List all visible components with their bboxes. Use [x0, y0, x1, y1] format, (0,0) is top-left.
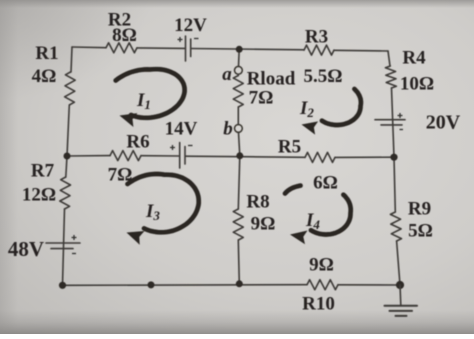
- loop current I4 arrow (main arc): [311, 195, 351, 235]
- svg-text:R5: R5: [278, 137, 301, 158]
- svg-text:7Ω: 7Ω: [108, 165, 133, 186]
- battery 12V source plates: [185, 36, 187, 61]
- wire: top rail between R2 and 12V source: [137, 47, 185, 50]
- loop current I1 arrow: [116, 69, 185, 118]
- wire: bottom rail right segment: [338, 284, 400, 286]
- resistor R2 (8 ohm, top rail): [106, 43, 137, 53]
- svg-text:R1: R1: [35, 43, 58, 64]
- wire: middle rail between R6 and 14V source: [141, 155, 179, 157]
- svg-text:12Ω: 12Ω: [22, 185, 56, 206]
- wire: R8 down to bottom rail junction: [238, 240, 239, 284]
- wire: node b down to middle rail junction: [239, 132, 240, 156]
- svg-text:R6: R6: [126, 132, 149, 153]
- resistor R1 (4 ohm, left rail): [65, 72, 76, 105]
- polarity - of 14V: [188, 145, 193, 147]
- wire: Rload column from top rail to node a: [238, 49, 241, 66]
- wire: top rail from 12V to R3: [191, 49, 304, 50]
- svg-text:5Ω: 5Ω: [408, 221, 433, 242]
- node b (open terminal): [235, 124, 243, 132]
- wire: right rail middle junction down to R9: [394, 157, 395, 212]
- svg-text:Rload: Rload: [247, 69, 296, 90]
- resistor R7 (12 ohm, left rail): [60, 177, 71, 209]
- junction dot bottom right corner: [396, 281, 404, 289]
- junction dot bottom rail left-center: [148, 281, 155, 288]
- wire: left rail middle junction down to R7: [66, 156, 67, 177]
- wire: top rail right segment to corner: [334, 49, 388, 52]
- junction dot top of Rload column: [236, 46, 243, 53]
- svg-text:10Ω: 10Ω: [400, 74, 434, 95]
- wire: left rail R7 down through 48V to bottom corner: [63, 209, 65, 285]
- svg-text:20V: 20V: [426, 112, 461, 134]
- wire: Rload to node b: [237, 107, 239, 125]
- wire: middle rail from 14V to R5: [186, 156, 306, 157]
- svg-text:12V: 12V: [174, 15, 207, 36]
- wire: right rail R4 down through 20V to middle junction: [392, 88, 395, 157]
- resistor R6 (7 ohm, middle rail): [110, 151, 141, 161]
- svg-text:R8: R8: [246, 192, 269, 213]
- battery 20V source plates: [375, 119, 405, 121]
- polarity - of 12V: [194, 38, 199, 40]
- svg-text:R9: R9: [408, 199, 431, 220]
- svg-text:b: b: [223, 119, 233, 140]
- resistor R4 (10 ohm, right rail): [385, 66, 396, 88]
- ground symbol: [385, 285, 418, 316]
- resistor R8 (9 ohm): [233, 209, 243, 240]
- polarity + of 20V: [398, 113, 403, 118]
- resistor R9 (5 ohm, right rail): [390, 212, 401, 241]
- loop current I2 arrow: [322, 89, 361, 125]
- polarity + of 14V: [170, 145, 175, 150]
- svg-text:14V: 14V: [165, 119, 198, 140]
- junction dot middle rail left: [64, 153, 71, 160]
- svg-text:R4: R4: [402, 48, 426, 69]
- polarity + of 48V: [72, 235, 77, 240]
- junction dot middle rail right: [390, 154, 397, 161]
- wire: left rail top (corner down to R1): [71, 47, 72, 72]
- junction dot middle rail center: [236, 152, 243, 159]
- svg-text:48V: 48V: [8, 237, 44, 261]
- svg-text:a: a: [222, 64, 232, 85]
- svg-text:7Ω: 7Ω: [249, 88, 274, 109]
- loop current I3 arrow: [128, 174, 199, 232]
- svg-text:8Ω: 8Ω: [112, 25, 137, 46]
- loop current I4 arrow (dash): [285, 186, 301, 194]
- wire: middle rail right segment to junction: [335, 156, 394, 158]
- svg-text:6Ω: 6Ω: [313, 173, 338, 194]
- junction dot bottom left corner: [59, 282, 66, 289]
- resistor R10 (9 ohm, bottom rail): [307, 280, 338, 290]
- node a (open terminal): [235, 66, 243, 74]
- wire: bottom rail left segment: [63, 284, 308, 287]
- wire: middle rail left segment: [67, 155, 110, 157]
- svg-text:R7: R7: [31, 161, 55, 182]
- svg-text:R3: R3: [305, 27, 328, 48]
- resistor R5 (6 ohm, middle rail): [305, 152, 335, 162]
- battery 48V source plates: [46, 242, 80, 244]
- wire: top rail left segment: [72, 46, 106, 49]
- wire: R8 column middle junction down to R8: [238, 156, 240, 209]
- battery 14V source plates: [179, 143, 181, 169]
- wire: node a to Rload: [237, 74, 239, 75]
- junction dot bottom rail at R8: [236, 280, 243, 287]
- polarity - of 48V: [72, 253, 76, 255]
- wire: right rail top corner down to R4: [388, 51, 390, 66]
- wire: right rail R9 down to bottom corner: [397, 241, 400, 285]
- polarity - of 20V: [400, 129, 404, 131]
- resistor R3 (5.5 ohm, top rail): [304, 45, 334, 55]
- polarity + of 12V: [178, 37, 183, 42]
- svg-text:5.5Ω: 5.5Ω: [304, 66, 343, 87]
- svg-text:4Ω: 4Ω: [32, 66, 57, 87]
- svg-text:R10: R10: [302, 294, 335, 315]
- svg-text:9Ω: 9Ω: [309, 255, 334, 276]
- svg-text:9Ω: 9Ω: [251, 214, 276, 235]
- resistor Rload (7 ohm): [233, 76, 243, 108]
- wire: left rail R1 down to middle rail junction: [67, 105, 69, 156]
